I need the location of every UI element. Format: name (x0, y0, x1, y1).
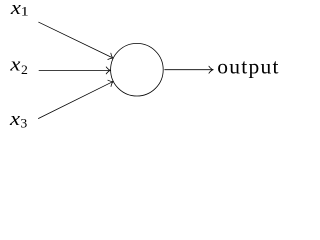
svg-text:x: x (10, 0, 21, 18)
svg-text:output: output (217, 55, 278, 79)
svg-text:3: 3 (20, 116, 27, 130)
svg-text:2: 2 (21, 63, 28, 77)
svg-text:x: x (9, 55, 20, 75)
svg-text:x: x (9, 110, 20, 130)
svg-text:1: 1 (21, 5, 29, 19)
